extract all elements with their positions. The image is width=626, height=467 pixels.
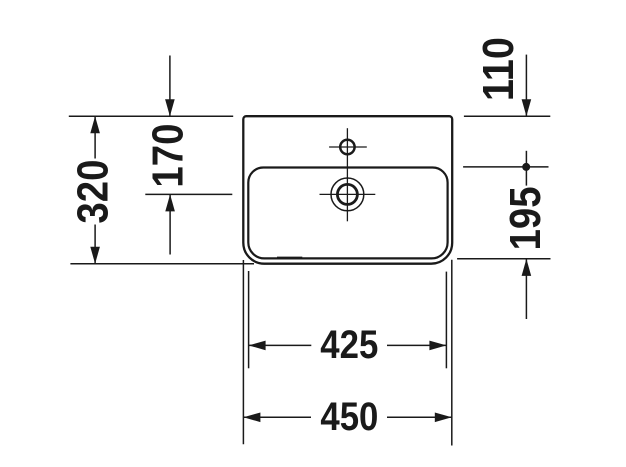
- arrow 450 left: [243, 413, 260, 423]
- arrow 195 up: [522, 259, 532, 276]
- drain inner circle: [337, 184, 357, 204]
- arrow 425 right: [429, 341, 446, 351]
- dot terminator 110/195: [522, 163, 530, 171]
- drain outer circle: [331, 178, 364, 211]
- basin inner bowl rim: [248, 168, 447, 259]
- extension vertical 425 left: [248, 271, 250, 368]
- dim 195 line upper: [525, 151, 527, 186]
- dim 320 line: [94, 116, 96, 158]
- svg-text:195: 195: [502, 186, 550, 250]
- svg-text:320: 320: [70, 160, 118, 224]
- faucet hole circle: [340, 140, 354, 154]
- svg-text:425: 425: [320, 323, 378, 367]
- extension line top left: [69, 115, 233, 117]
- dim 195 arrow tail lower: [525, 259, 527, 319]
- drain crosshair horizontal: [320, 193, 376, 195]
- arrow 170 down at top edge: [165, 99, 175, 116]
- arrow 320 down: [90, 247, 100, 264]
- extension line hole level right: [463, 166, 548, 168]
- basin outer outline: [243, 116, 452, 264]
- arrow 170 up at drain line: [165, 194, 175, 211]
- extension vertical 450 right: [451, 260, 453, 446]
- extension line top right: [464, 115, 550, 117]
- arrow 425 left: [249, 341, 266, 351]
- svg-text:450: 450: [320, 395, 378, 439]
- extension vertical 425 right: [445, 272, 447, 369]
- faucet crosshair horizontal: [329, 146, 367, 148]
- dim 170 line upper: [169, 56, 171, 117]
- arrow 450 right: [435, 413, 452, 423]
- svg-text:170: 170: [144, 124, 192, 188]
- extension vertical 450 left: [242, 260, 244, 444]
- extension line bowl front right: [457, 258, 550, 260]
- dim 450 line: [243, 416, 311, 418]
- dim 110 line: [525, 55, 527, 117]
- overflow mark: [277, 256, 302, 258]
- svg-text:110: 110: [475, 37, 523, 101]
- arrow 110 down: [522, 99, 532, 116]
- extension line drain level left: [145, 193, 232, 195]
- arrow 320 up: [90, 116, 100, 133]
- dim 425 line: [249, 344, 312, 346]
- dim 170 line lower: [169, 194, 171, 254]
- vertical centerline: [346, 128, 348, 221]
- extension line bottom left: [70, 263, 254, 265]
